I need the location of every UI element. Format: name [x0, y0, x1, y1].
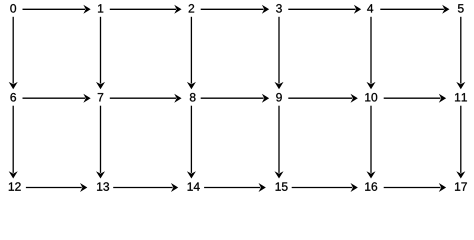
wire edge 15->16 — [292, 183, 358, 192]
node 13 — [97, 182, 109, 190]
wire edge 13->14 — [113, 183, 178, 192]
node 11 — [455, 93, 467, 101]
node 15 — [276, 182, 288, 190]
node 8 — [190, 93, 196, 101]
wire edge 12->13 — [26, 183, 87, 192]
wire edge 9->15 — [275, 106, 284, 179]
wire edge 3->9 — [275, 17, 284, 89]
wire edge 0->1 — [23, 5, 91, 14]
node 12 — [9, 182, 21, 190]
wire edge 6->12 — [9, 106, 18, 179]
wire edge 6->7 — [23, 94, 91, 103]
node 17 — [455, 182, 467, 190]
wire edge 7->13 — [96, 106, 105, 179]
wire edge 10->16 — [367, 106, 376, 179]
wire edge 9->10 — [288, 94, 358, 103]
node 4 — [367, 4, 373, 12]
wire edge 16->17 — [384, 183, 446, 192]
node 6 — [10, 93, 16, 101]
wire edge 8->14 — [187, 106, 196, 179]
wire edge 8->9 — [201, 94, 269, 103]
node 10 — [365, 93, 377, 101]
wire edge 11->17 — [456, 106, 465, 179]
wire edge 10->11 — [384, 94, 446, 103]
node 1 — [98, 4, 103, 12]
node 0 — [10, 4, 16, 12]
wire edge 14->15 — [204, 183, 266, 192]
wire edge 2->8 — [187, 17, 196, 89]
node 7 — [98, 93, 103, 101]
wire edge 7->8 — [110, 94, 182, 103]
wire edge 4->5 — [380, 5, 449, 14]
node 9 — [276, 93, 282, 101]
wire edge 2->3 — [201, 5, 269, 14]
wire edge 5->11 — [456, 17, 465, 89]
node 2 — [189, 4, 194, 12]
wire edge 0->6 — [9, 17, 18, 89]
wire edge 1->7 — [96, 17, 105, 89]
node 14 — [188, 182, 200, 190]
wire edge 3->4 — [288, 5, 361, 14]
node 16 — [365, 182, 377, 190]
node 5 — [458, 4, 464, 12]
node 3 — [276, 4, 282, 12]
wire edge 4->10 — [367, 17, 376, 89]
wire edge 1->2 — [110, 5, 182, 14]
